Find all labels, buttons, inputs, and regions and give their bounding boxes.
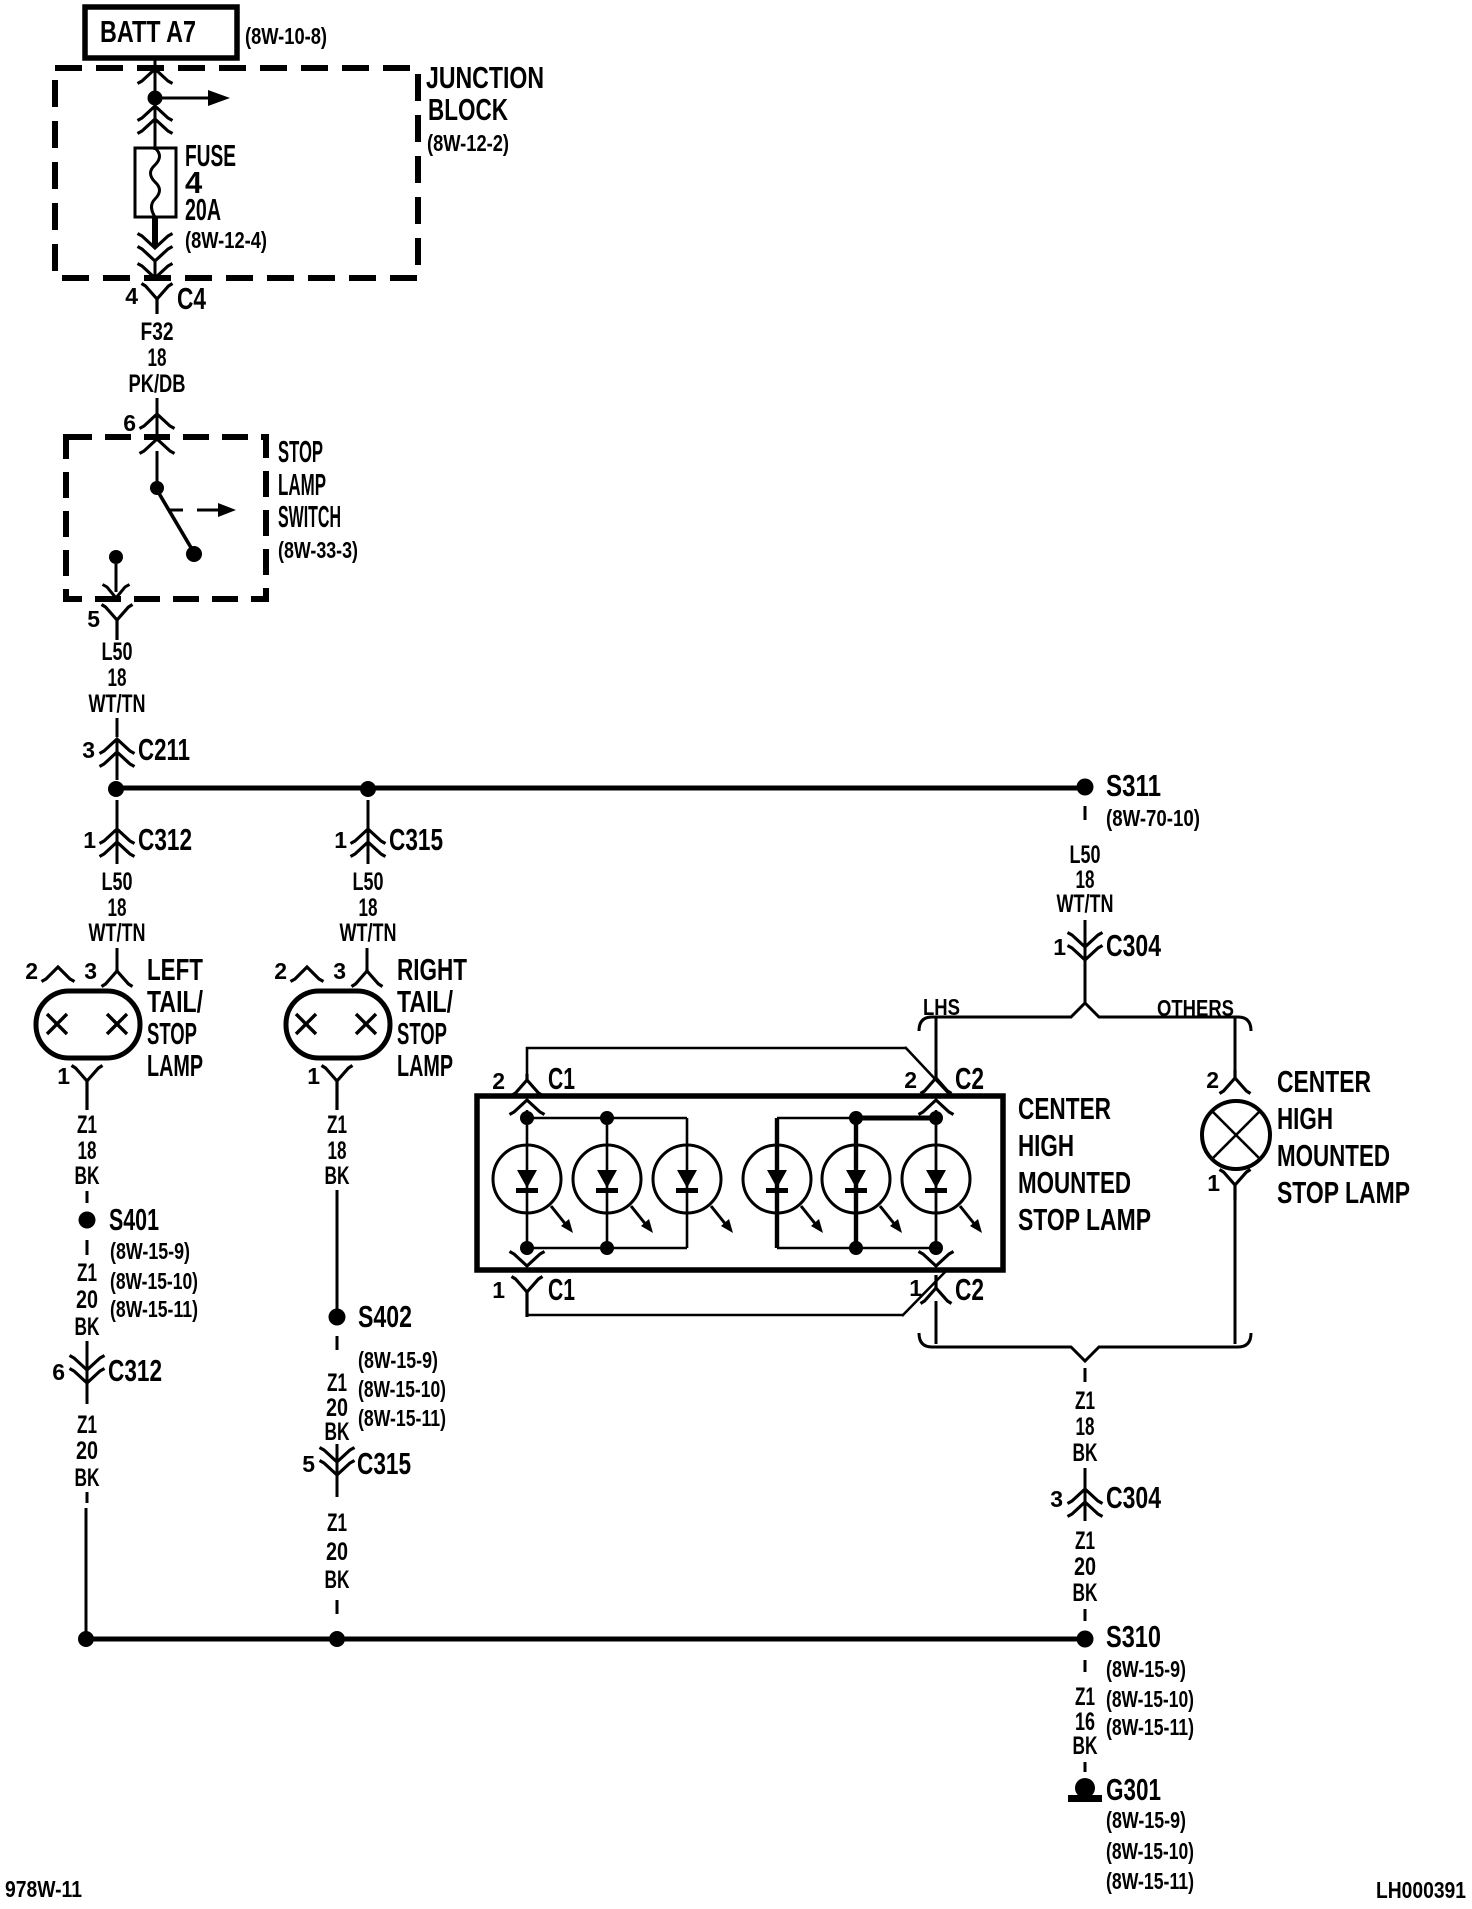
connector fork left lamp pin 3 — [102, 969, 133, 987]
svg-text:2: 2 — [492, 1068, 505, 1094]
node LED bottom bus dot 1 — [520, 1241, 534, 1255]
wire dash below S310 — [1084, 1660, 1087, 1672]
svg-text:6: 6 — [52, 1359, 65, 1385]
node LED top bus dot 2 — [600, 1111, 614, 1125]
switch lower contact dot — [109, 550, 123, 564]
wire horizontal stop-lamp feed bus — [116, 786, 1085, 791]
svg-text:S402: S402 — [358, 1299, 412, 1334]
connector C315 chevrons — [351, 829, 386, 857]
wire dash below BK middle — [336, 1600, 339, 1614]
wire BK to C312 lower — [86, 1341, 89, 1404]
svg-text:18: 18 — [108, 664, 127, 692]
svg-text:3: 3 — [82, 737, 95, 763]
svg-text:L50: L50 — [102, 868, 133, 896]
LED 6 — [902, 1118, 982, 1248]
svg-text:MOUNTED: MOUNTED — [1277, 1138, 1390, 1173]
svg-text:CENTER: CENTER — [1018, 1091, 1111, 1126]
switch pivot dot — [150, 481, 164, 495]
svg-text:BK: BK — [325, 1418, 350, 1446]
left lamp filament X left — [47, 1014, 67, 1034]
svg-text:S401: S401 — [109, 1202, 159, 1237]
node ground bus middle dot — [329, 1631, 345, 1647]
wire horizontal ground bus — [86, 1637, 1085, 1642]
exit chevrons to C4 — [138, 234, 173, 262]
svg-text:(8W-12-2): (8W-12-2) — [427, 130, 509, 156]
svg-text:RIGHT: RIGHT — [397, 952, 467, 987]
connector chevron right lamp pin 2 — [291, 967, 324, 982]
exit chevron C1 pin 1 inside box — [510, 1252, 545, 1267]
connector fork C2 pin 1 — [921, 1275, 952, 1304]
node LED bottom bus dot 2 — [600, 1241, 614, 1255]
connector C304 lower chevrons — [1068, 1489, 1103, 1517]
wire round lamp to bottom bracket — [1234, 1200, 1237, 1344]
svg-text:18: 18 — [148, 344, 167, 372]
svg-text:Z1: Z1 — [327, 1111, 347, 1139]
switch blade tip dot — [186, 546, 202, 562]
svg-text:Z1: Z1 — [77, 1411, 97, 1439]
wire WT/TN to C304 — [1084, 920, 1087, 1003]
svg-text:2: 2 — [1206, 1067, 1219, 1093]
round center high mounted stop lamp body — [1202, 1101, 1270, 1169]
wire LED bottom bus left — [527, 1247, 687, 1250]
node LED top bus dot 5 — [849, 1111, 863, 1125]
svg-text:C304: C304 — [1106, 928, 1162, 963]
svg-text:18: 18 — [328, 1137, 347, 1165]
svg-text:C1: C1 — [548, 1272, 575, 1307]
wire LED top bus right — [777, 1117, 856, 1120]
svg-text:20: 20 — [1074, 1553, 1096, 1581]
wire dash below BK left — [86, 1492, 89, 1503]
LED 1 — [493, 1118, 573, 1248]
wire dash below S401 — [86, 1240, 89, 1255]
wire dash above S401 — [86, 1191, 89, 1203]
connector C304 chevrons — [1068, 933, 1103, 961]
svg-text:18: 18 — [359, 894, 378, 922]
svg-text:CENTER: CENTER — [1277, 1064, 1371, 1099]
exit chevron C2 pin 1 inside box — [919, 1252, 954, 1267]
svg-text:C211: C211 — [138, 732, 190, 767]
center high mounted stop lamp LED module box — [477, 1096, 1003, 1270]
connector fork round lamp pin 1 — [1220, 1170, 1251, 1201]
switch actuation arrow — [168, 503, 236, 517]
wire left to ground bus — [85, 1508, 88, 1634]
bracket alternates bottom — [919, 1333, 1251, 1361]
svg-text:18: 18 — [1076, 1413, 1095, 1441]
node bus left junction — [108, 781, 124, 797]
svg-text:BLOCK: BLOCK — [428, 92, 508, 127]
wire C1 to C2 top link — [526, 1047, 906, 1050]
wire PK/DB to stop lamp switch — [156, 398, 159, 436]
connector C211 chevrons — [100, 739, 135, 767]
left lamp filament X right — [107, 1014, 127, 1034]
svg-text:BATT A7: BATT A7 — [100, 14, 196, 49]
node bus middle junction — [360, 781, 376, 797]
wire dash below bottom bracket — [1084, 1368, 1087, 1382]
svg-text:C2: C2 — [955, 1061, 984, 1096]
entry chevron C1 pin 2 inside box — [510, 1100, 545, 1115]
junction block dashed box — [55, 68, 418, 278]
svg-text:C2: C2 — [955, 1272, 984, 1307]
wire right lamp to S402 — [336, 1190, 339, 1310]
svg-text:Z1: Z1 — [327, 1369, 347, 1397]
wire to switch pivot — [156, 451, 159, 483]
wire BK to C304 lower — [1084, 1468, 1087, 1521]
node LED top bus dot 1 — [520, 1111, 534, 1125]
connector fork right lamp pin 3 — [352, 969, 383, 987]
svg-text:20A: 20A — [185, 192, 221, 227]
svg-text:BK: BK — [1073, 1732, 1098, 1760]
svg-text:5: 5 — [302, 1451, 315, 1477]
connector C4 fork — [142, 284, 173, 315]
svg-text:WT/TN: WT/TN — [340, 919, 397, 947]
svg-text:L50: L50 — [353, 868, 384, 896]
svg-text:STOP: STOP — [278, 434, 323, 469]
battery feed box BATT A7 — [85, 7, 237, 58]
wire WT/TN to left lamp pin 3 — [116, 948, 119, 969]
svg-text:(8W-33-3): (8W-33-3) — [278, 537, 358, 563]
svg-text:LAMP: LAMP — [278, 467, 326, 502]
svg-text:(8W-15-9): (8W-15-9) — [1106, 1807, 1186, 1833]
svg-text:4: 4 — [125, 283, 138, 309]
wire WT/TN to right lamp pin 3 — [366, 948, 369, 969]
connector half chevron at junction block entry — [138, 69, 173, 84]
wire diagonal into C2 pin 2 — [905, 1047, 951, 1096]
wire WT/TN to C211 — [116, 718, 119, 737]
svg-text:BK: BK — [325, 1566, 350, 1594]
svg-text:C304: C304 — [1106, 1480, 1162, 1515]
svg-text:18: 18 — [78, 1137, 97, 1165]
svg-text:3: 3 — [1050, 1486, 1063, 1512]
LED 4 — [743, 1118, 823, 1248]
svg-text:20: 20 — [326, 1538, 348, 1566]
left tail/stop lamp body — [36, 991, 140, 1058]
entry chevron inside switch box — [140, 439, 175, 454]
svg-text:1: 1 — [307, 1063, 320, 1089]
svg-text:(8W-12-4): (8W-12-4) — [185, 227, 267, 253]
connector C315 lower chevrons — [320, 1448, 355, 1476]
arrow other-circuits feed — [160, 90, 230, 106]
wire C1 pin2 riser — [526, 1047, 529, 1076]
svg-text:BK: BK — [325, 1162, 350, 1190]
splice S401 dot — [79, 1212, 96, 1229]
wire dash below S402 — [336, 1336, 339, 1350]
svg-text:C315: C315 — [357, 1446, 411, 1481]
svg-text:WT/TN: WT/TN — [89, 919, 146, 947]
fuse 4 20A body — [135, 148, 176, 217]
svg-text:18: 18 — [108, 894, 127, 922]
node ground bus left dot — [78, 1631, 94, 1647]
right lamp filament X left — [296, 1014, 316, 1034]
svg-text:LH000391: LH000391 — [1376, 1877, 1466, 1903]
svg-text:C312: C312 — [138, 822, 192, 857]
splice S402 dot — [329, 1309, 346, 1326]
svg-text:TAIL/: TAIL/ — [147, 984, 203, 1019]
svg-text:(8W-15-9): (8W-15-9) — [1106, 1656, 1186, 1682]
svg-text:C312: C312 — [108, 1353, 162, 1388]
in-line chevrons above fuse — [138, 106, 173, 134]
svg-text:1: 1 — [1207, 1170, 1220, 1196]
svg-text:L50: L50 — [1070, 841, 1101, 869]
svg-text:5: 5 — [87, 606, 100, 632]
svg-text:MOUNTED: MOUNTED — [1018, 1165, 1131, 1200]
node LED bottom bus dot 5 — [849, 1241, 863, 1255]
right tail/stop lamp body — [286, 991, 390, 1058]
splice S311 dot — [1077, 779, 1094, 796]
wire dash below S311 — [1084, 806, 1087, 820]
svg-text:978W-11: 978W-11 — [5, 1876, 82, 1902]
LED 3 — [653, 1118, 733, 1248]
svg-text:SWITCH: SWITCH — [278, 499, 341, 534]
svg-text:LEFT: LEFT — [147, 952, 203, 987]
wire LHS drop to C2 pin 2 — [935, 1018, 938, 1070]
svg-text:STOP LAMP: STOP LAMP — [1277, 1175, 1410, 1210]
svg-text:20: 20 — [76, 1437, 98, 1465]
connector fork round lamp pin 2 — [1220, 1070, 1251, 1094]
LED 2 — [573, 1118, 653, 1248]
svg-text:G301: G301 — [1106, 1772, 1161, 1807]
svg-text:S310: S310 — [1106, 1619, 1161, 1654]
node LED bottom bus dot 6 — [929, 1241, 943, 1255]
right lamp filament X right — [356, 1014, 376, 1034]
svg-text:20: 20 — [76, 1286, 98, 1314]
wire C2 pin1 to bottom bracket — [935, 1301, 938, 1344]
svg-text:Z1: Z1 — [1075, 1527, 1095, 1555]
svg-text:Z1: Z1 — [77, 1111, 97, 1139]
svg-text:BK: BK — [75, 1464, 100, 1492]
connector fork C1 pin 2 — [512, 1074, 543, 1096]
svg-text:1: 1 — [57, 1063, 70, 1089]
svg-text:3: 3 — [84, 958, 97, 984]
svg-text:(8W-15-10): (8W-15-10) — [1106, 1686, 1194, 1712]
svg-text:WT/TN: WT/TN — [89, 690, 146, 718]
svg-text:S311: S311 — [1106, 768, 1161, 803]
svg-text:(8W-15-10): (8W-15-10) — [358, 1376, 446, 1402]
wire dash above G301 — [1084, 1762, 1087, 1772]
stop lamp switch dashed box — [66, 437, 266, 599]
switch contact arrow to pin 5 — [115, 564, 118, 592]
entry chevron C2 pin 2 inside box — [919, 1100, 954, 1115]
svg-text:2: 2 — [904, 1067, 917, 1093]
node junction block feed dot — [148, 91, 163, 106]
svg-text:Z1: Z1 — [1075, 1387, 1095, 1415]
svg-text:(8W-15-10): (8W-15-10) — [1106, 1838, 1194, 1864]
wire LED top bus left — [527, 1117, 687, 1120]
svg-text:BK: BK — [75, 1313, 100, 1341]
wire LED bottom bus right — [777, 1247, 936, 1250]
wire C1 pin1 link — [527, 1314, 903, 1317]
svg-text:3: 3 — [333, 958, 346, 984]
svg-text:BK: BK — [1073, 1579, 1098, 1607]
svg-text:1: 1 — [83, 827, 96, 853]
svg-text:BK: BK — [75, 1162, 100, 1190]
svg-text:Z1: Z1 — [327, 1509, 347, 1537]
wire BK to C315 lower — [336, 1444, 339, 1497]
svg-text:Z1: Z1 — [77, 1259, 97, 1287]
node LED top bus dot 6 — [929, 1111, 943, 1125]
svg-text:(8W-15-11): (8W-15-11) — [1106, 1868, 1194, 1894]
svg-text:HIGH: HIGH — [1018, 1128, 1074, 1163]
svg-text:(8W-15-9): (8W-15-9) — [358, 1347, 438, 1373]
svg-text:Z1: Z1 — [1075, 1683, 1095, 1711]
svg-text:6: 6 — [123, 410, 136, 436]
svg-text:(8W-10-8): (8W-10-8) — [245, 23, 327, 49]
ground G301 symbol — [1068, 1778, 1102, 1802]
svg-text:STOP: STOP — [147, 1016, 197, 1051]
svg-text:TAIL/: TAIL/ — [397, 984, 453, 1019]
connector fork C2 pin 2 — [921, 1070, 952, 1094]
svg-text:LAMP: LAMP — [397, 1048, 453, 1083]
connector fork C1 pin 1 — [512, 1277, 543, 1318]
bracket alternates top — [919, 1003, 1251, 1031]
svg-text:STOP LAMP: STOP LAMP — [1018, 1202, 1151, 1237]
connector chevron pin 6 — [140, 414, 175, 429]
wire bus to C315 — [367, 800, 370, 828]
svg-text:WT/TN: WT/TN — [1057, 890, 1114, 918]
svg-text:(8W-15-9): (8W-15-9) — [110, 1238, 190, 1264]
wire fuse to C4 exit — [152, 217, 158, 247]
LED 5 — [822, 1118, 902, 1248]
svg-text:(8W-15-11): (8W-15-11) — [358, 1405, 446, 1431]
svg-text:(8W-70-10): (8W-70-10) — [1106, 805, 1200, 831]
svg-text:C315: C315 — [389, 822, 443, 857]
svg-text:1: 1 — [334, 827, 347, 853]
svg-text:2: 2 — [274, 958, 287, 984]
svg-text:PK/DB: PK/DB — [129, 370, 186, 398]
svg-text:1: 1 — [909, 1275, 922, 1301]
connector fork right lamp pin 1 — [322, 1066, 353, 1111]
svg-text:(8W-15-11): (8W-15-11) — [1106, 1714, 1194, 1740]
wire OTHERS drop to lamp pin 2 — [1234, 1018, 1237, 1070]
connector fork pin 5 — [102, 605, 133, 641]
connector chevron left lamp pin 2 — [42, 967, 75, 982]
wire bus to C312 — [116, 800, 119, 828]
connector fork left lamp pin 1 — [72, 1066, 103, 1111]
svg-text:C1: C1 — [548, 1061, 575, 1096]
svg-text:(8W-15-11): (8W-15-11) — [110, 1296, 198, 1322]
svg-text:L50: L50 — [102, 638, 133, 666]
svg-text:BK: BK — [1073, 1439, 1098, 1467]
switch blade — [157, 490, 193, 551]
svg-text:(8W-15-10): (8W-15-10) — [110, 1268, 198, 1294]
connector C312 lower chevrons — [70, 1356, 105, 1384]
svg-text:F32: F32 — [141, 318, 174, 346]
svg-text:C4: C4 — [177, 281, 207, 316]
svg-text:LAMP: LAMP — [147, 1048, 203, 1083]
svg-text:HIGH: HIGH — [1277, 1101, 1333, 1136]
connector C312 chevrons — [100, 829, 135, 857]
svg-text:STOP: STOP — [397, 1016, 447, 1051]
svg-text:1: 1 — [1053, 934, 1066, 960]
svg-text:1: 1 — [492, 1277, 505, 1303]
wire dash above S310 — [1084, 1609, 1087, 1621]
svg-text:JUNCTION: JUNCTION — [426, 60, 544, 95]
splice S310 dot — [1077, 1631, 1094, 1648]
wire BATT A7 to fuse — [154, 58, 157, 150]
exit chevron at junction block edge — [138, 264, 173, 279]
wire diagonal from C2 pin 1 — [902, 1270, 947, 1316]
svg-text:2: 2 — [25, 958, 38, 984]
